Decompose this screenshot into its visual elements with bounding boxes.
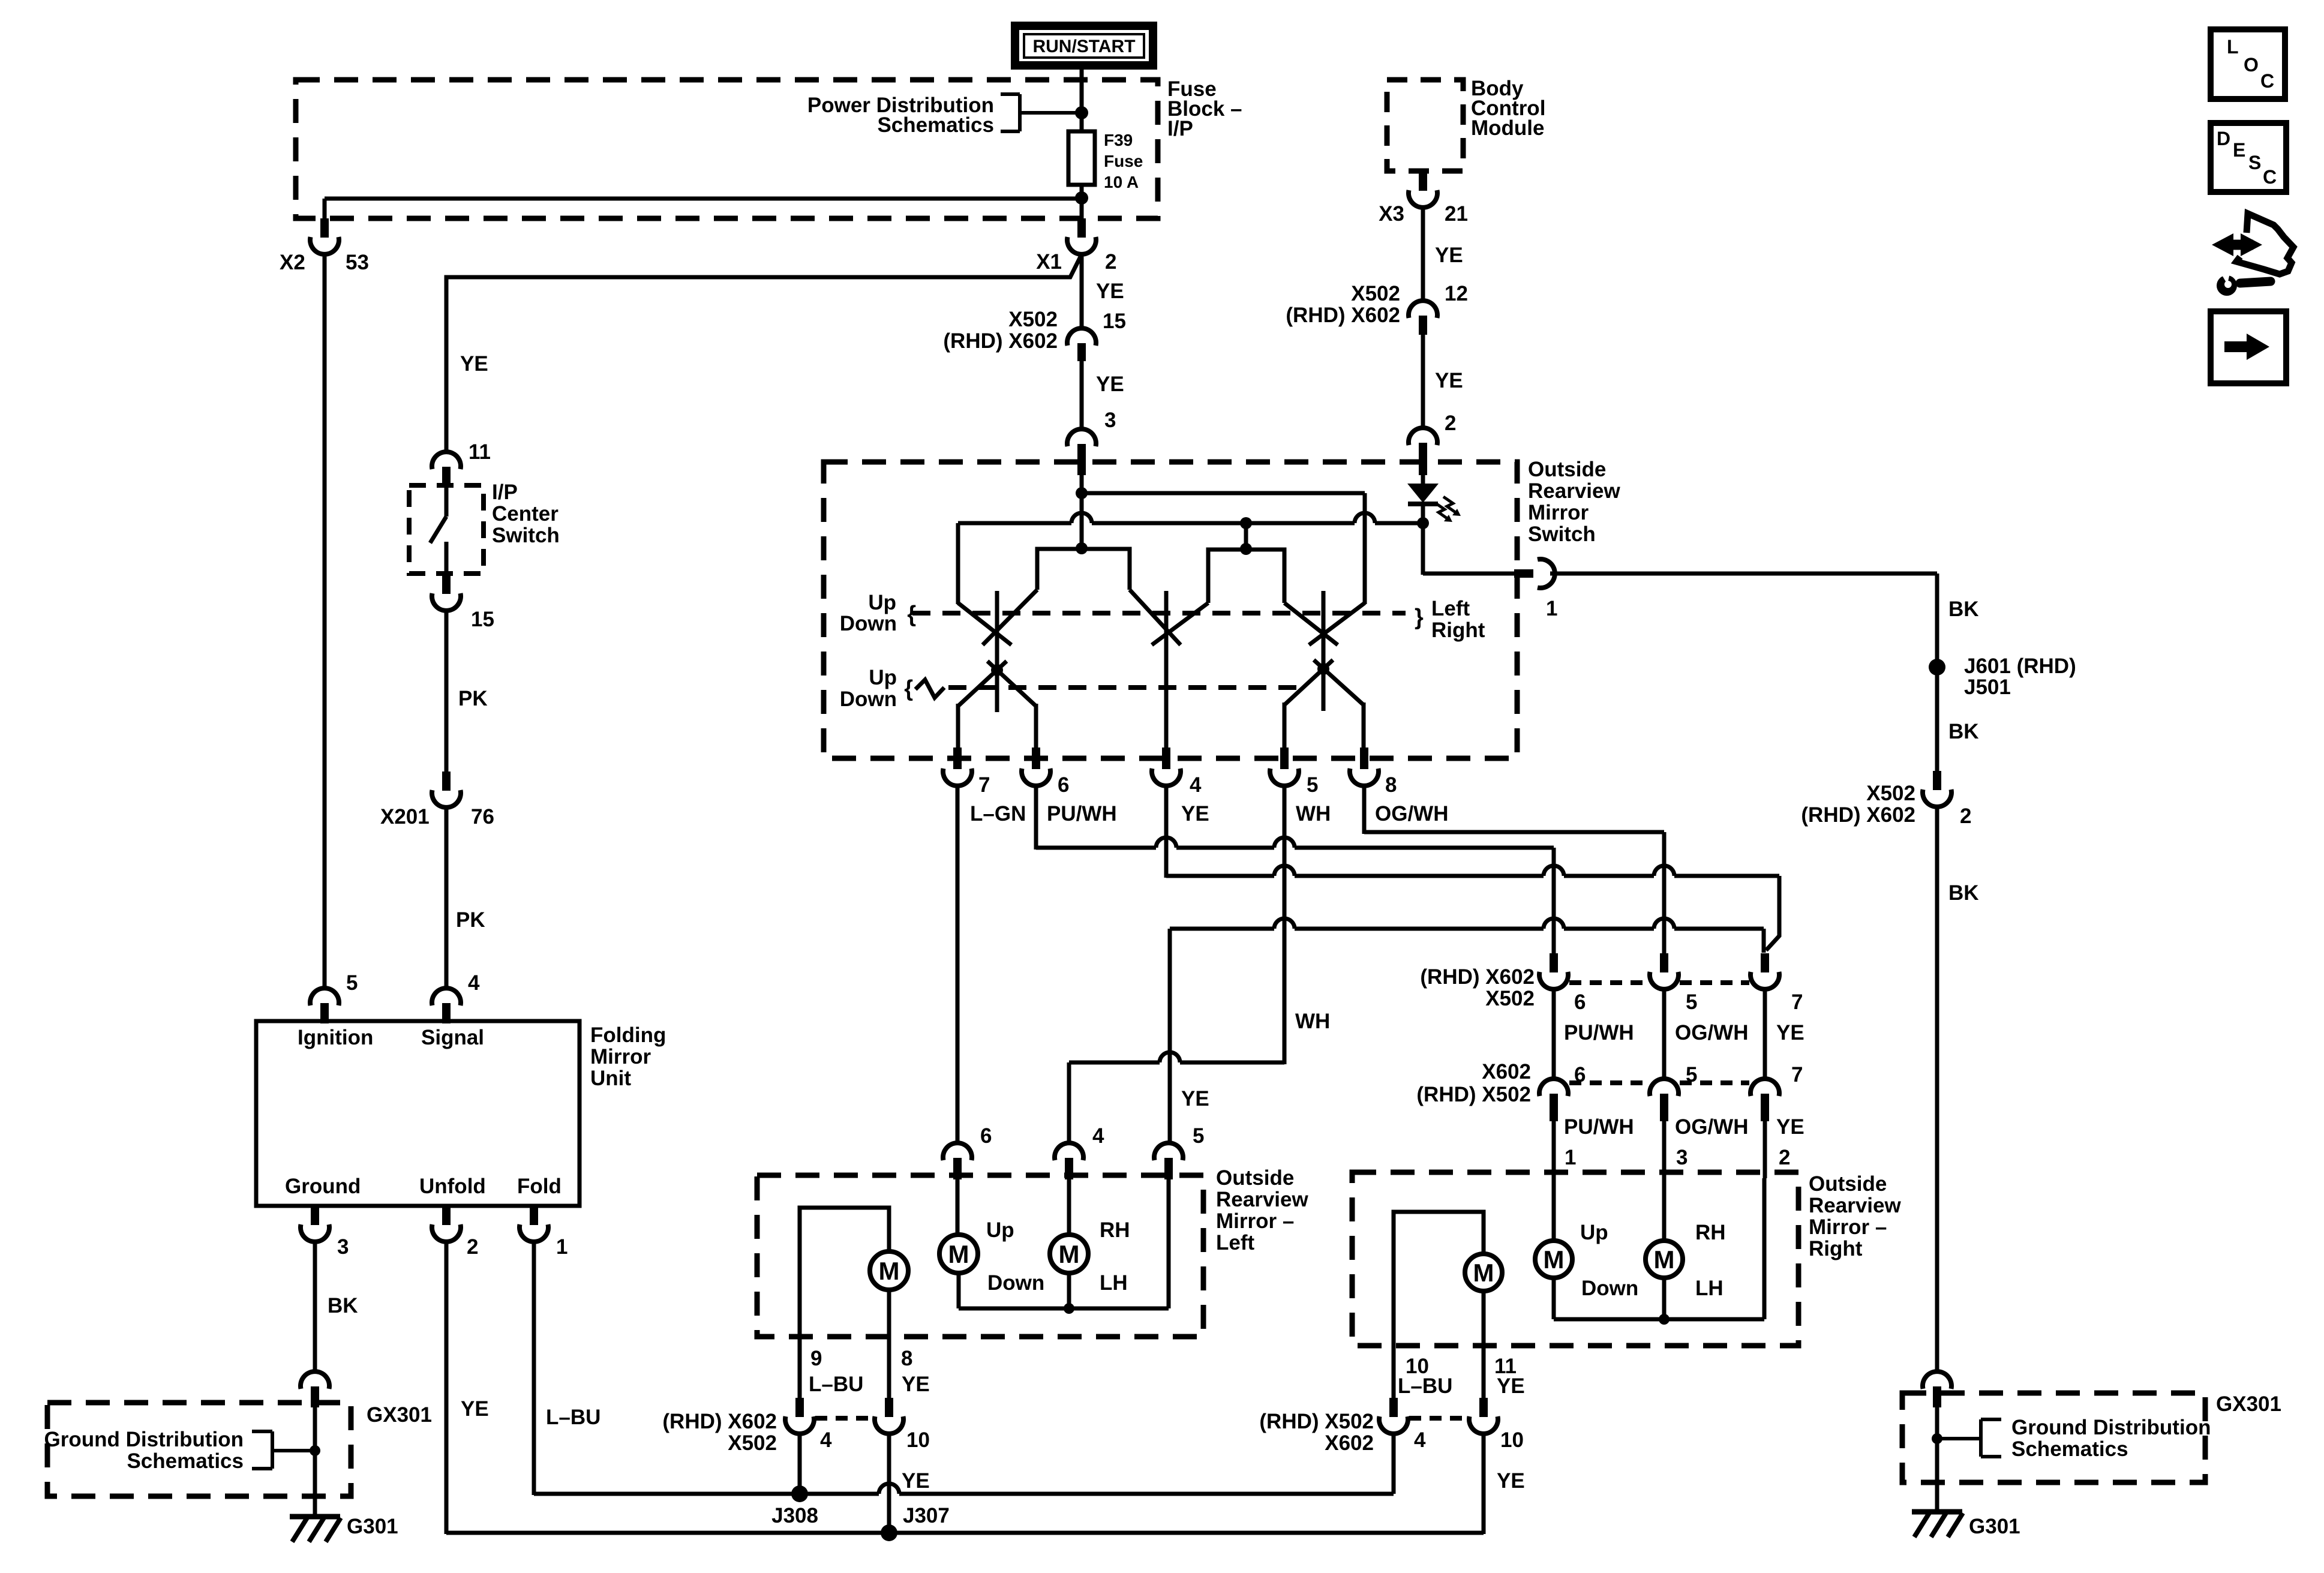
outside rearview mirror right label (1809, 1172, 1901, 1260)
label RH LH right (1695, 1221, 1726, 1300)
svg-text:X502: X502 (1008, 308, 1058, 331)
svg-text:L–GN: L–GN (970, 802, 1026, 825)
svg-text:3: 3 (337, 1235, 349, 1259)
svg-text:5: 5 (1193, 1124, 1204, 1148)
connector X2 pin 53 (310, 218, 339, 254)
svg-text:4: 4 (468, 971, 480, 995)
svg-text:6: 6 (1574, 990, 1586, 1014)
svg-text:YE: YE (1776, 1021, 1804, 1044)
label G301 left (347, 1515, 398, 1538)
motor up/down left (939, 1235, 978, 1273)
label PK (458, 687, 488, 710)
label 11 (469, 440, 491, 464)
svg-text:WH: WH (1295, 1010, 1330, 1033)
svg-text:Signal: Signal (421, 1026, 484, 1049)
wire YE pin4 down (1164, 785, 1169, 878)
label YE (1435, 369, 1463, 392)
svg-text:G301: G301 (1969, 1515, 2020, 1538)
svg-text:Outside: Outside (1528, 458, 1606, 481)
junction J307 (881, 1524, 897, 1541)
label 7 YE row2 (1776, 1063, 1804, 1139)
wire ground BK (313, 1242, 317, 1373)
svg-text:{: { (904, 676, 913, 701)
svg-text:GX301: GX301 (2216, 1392, 2281, 1416)
label 6 PU/WH (1047, 773, 1117, 825)
ip switch contacts (430, 487, 446, 575)
connector X201 pin 76 (432, 772, 461, 807)
wire LED line branch (1244, 523, 1248, 550)
svg-text:11: 11 (469, 440, 491, 464)
wire 15 to X201 (445, 611, 449, 773)
label X502 (RHD) X602 2 (1801, 782, 1971, 828)
motor fold right (1465, 1254, 1502, 1291)
svg-text:L: L (2227, 36, 2239, 58)
connector switch pin 5 (1270, 748, 1299, 786)
svg-text:M: M (1544, 1245, 1565, 1274)
connector FMU pin 5 (310, 988, 339, 1023)
svg-text:12: 12 (1445, 282, 1468, 305)
wire unfold YE down (446, 1242, 889, 1534)
dashed link right pair (1409, 1416, 1467, 1421)
connector left mirror pin 5 (1154, 1143, 1183, 1179)
junction dot gx301 left (310, 1445, 320, 1456)
connector switch pin 4 (1152, 748, 1181, 786)
label 5 (346, 971, 358, 995)
wire fuse to X1 (1080, 185, 1084, 220)
fuse F39 10A (1068, 131, 1095, 185)
svg-text:L–BU: L–BU (546, 1406, 600, 1429)
connector X602 pin 6 row2 (1539, 1079, 1568, 1121)
svg-text:4: 4 (820, 1428, 832, 1452)
brace left/right (1415, 605, 1424, 630)
brace up/down row2 (904, 676, 913, 701)
label 4 (468, 971, 480, 995)
label X502 (RHD) X602 15 (943, 308, 1126, 353)
svg-text:X502: X502 (728, 1431, 777, 1455)
svg-text:RH: RH (1100, 1218, 1130, 1242)
svg-text:Outside: Outside (1809, 1172, 1887, 1196)
ground distribution reference right (1937, 1416, 2211, 1461)
ip center switch label (492, 481, 560, 547)
svg-text:Fold: Fold (517, 1175, 562, 1198)
svg-text:Outside: Outside (1216, 1166, 1294, 1190)
label 1 (556, 1235, 568, 1259)
wire WH down to left mirror pin4 (1067, 1062, 1071, 1144)
label J307 (903, 1504, 950, 1527)
fuse F39 label (1104, 131, 1143, 191)
LED illumination (1407, 475, 1439, 524)
labels right mirror pins (1565, 1146, 1790, 1169)
connector X502 pin 6 row1 (1539, 953, 1568, 989)
svg-text:Rearview: Rearview (1216, 1188, 1308, 1211)
svg-text:7: 7 (1791, 990, 1803, 1014)
svg-text:}: } (1415, 605, 1424, 630)
wire X2 to ignition (323, 253, 327, 989)
label Up Down right (1580, 1221, 1638, 1300)
svg-text:M: M (879, 1257, 900, 1285)
wire OG/WH pin8 route (1364, 785, 1664, 834)
svg-text:YE: YE (1435, 244, 1463, 267)
wire PU/WH horizontal (1036, 837, 1554, 848)
gx301 left dashed box (47, 1403, 351, 1496)
svg-text:YE: YE (1497, 1374, 1525, 1398)
label G301 right (1969, 1515, 2020, 1538)
wire fold motor down pin11 (1482, 1291, 1486, 1399)
svg-text:Schematics: Schematics (127, 1449, 244, 1473)
switch feed wire (1080, 475, 1084, 550)
label 5 OG/WH row2 (1675, 1063, 1748, 1139)
wire X3 to X502-12 YE (1421, 206, 1425, 301)
svg-text:Right: Right (1809, 1237, 1863, 1260)
svg-text:Down: Down (840, 612, 897, 635)
wire fold motor loop (800, 1208, 889, 1399)
connector pin 2 into switch (1409, 428, 1437, 475)
label BK 3 (1948, 881, 1979, 905)
svg-text:X602: X602 (1482, 1060, 1531, 1083)
connector FMU pin 3 (301, 1205, 329, 1242)
label 4 10 (820, 1428, 930, 1452)
lower contact right legs (1284, 660, 1364, 705)
wire YE mirror-left horizontal H3 (1170, 918, 1764, 929)
svg-text:BK: BK (1948, 598, 1979, 621)
label YE (1096, 373, 1124, 396)
label 6 PU/WH row1 (1564, 990, 1634, 1044)
label 4 10 right (1414, 1428, 1524, 1452)
wire LED to pin1 (1423, 523, 1515, 575)
ground symbol G301 right (1912, 1512, 1963, 1537)
svg-text:X1: X1 (1036, 250, 1062, 274)
connector pin 3 into switch (1067, 429, 1096, 475)
svg-text:Folding: Folding (590, 1023, 666, 1047)
connector X502 (RHD) X602 pin 15 (1067, 328, 1096, 361)
wire through gx301 right (1935, 1407, 1939, 1512)
svg-text:X502: X502 (1351, 282, 1400, 305)
junction dot LED line (1240, 517, 1252, 529)
label 5 (1193, 1124, 1204, 1148)
label 2 (467, 1235, 478, 1259)
wire J308 line (534, 1484, 1394, 1494)
rocker contact right vertical (1322, 591, 1326, 711)
wire to pin8 (1362, 703, 1366, 750)
svg-text:9: 9 (810, 1347, 822, 1370)
svg-text:15: 15 (1103, 310, 1126, 333)
svg-text:Up: Up (1580, 1221, 1608, 1244)
label BK (328, 1294, 358, 1317)
svg-text:WH: WH (1296, 802, 1331, 825)
svg-text:7: 7 (978, 773, 990, 797)
wire to J308 (798, 1434, 802, 1494)
junction dot above fuse (1075, 106, 1088, 119)
wire YE jog to X502-7 (1766, 876, 1779, 950)
outside rearview mirror left dashed box (757, 1175, 1203, 1337)
svg-text:2: 2 (1960, 804, 1971, 828)
junction dot feed upper (1076, 487, 1088, 499)
outside rearview mirror switch dashed box (824, 462, 1517, 758)
svg-text:L–BU: L–BU (1398, 1374, 1452, 1398)
label Ignition Signal (298, 1026, 484, 1049)
label L-BU fold (546, 1406, 600, 1429)
label X2 53 (280, 251, 369, 274)
connector X502 pin 7 row1 (1750, 953, 1779, 989)
svg-text:RUN/START: RUN/START (1032, 37, 1135, 56)
svg-text:Mirror –: Mirror – (1809, 1215, 1887, 1239)
svg-text:M: M (1059, 1240, 1080, 1268)
label 15 (471, 608, 494, 631)
junction dot tent 2 (1240, 543, 1252, 555)
svg-text:1: 1 (1565, 1146, 1576, 1169)
svg-text:G301: G301 (347, 1515, 398, 1538)
connector X3 pin 21 (1409, 169, 1437, 208)
label J308 (771, 1504, 818, 1527)
wire PU/WH down to X502-6 (1552, 848, 1556, 954)
wire switch pin1 BK (1550, 574, 1937, 772)
label X201 76 (380, 805, 494, 828)
label 9 8 (810, 1347, 912, 1370)
svg-text:YE: YE (1181, 802, 1209, 825)
wire through gx301 left (313, 1407, 317, 1517)
label 6 (980, 1124, 992, 1148)
connector ground GX301 left (301, 1371, 329, 1407)
junction dot rail (1064, 1303, 1074, 1314)
dashed link row2 (1569, 1080, 1749, 1085)
svg-text:1: 1 (556, 1235, 568, 1259)
junction J308 (791, 1485, 808, 1502)
wire X1-2 down (1080, 253, 1084, 329)
svg-text:F39: F39 (1104, 131, 1133, 149)
motor rh/lh right (1646, 1241, 1683, 1278)
label L-BU YE (809, 1373, 930, 1396)
motor up/down right (1535, 1241, 1572, 1278)
svg-text:Down: Down (840, 688, 897, 711)
ip center switch dashed box (409, 485, 484, 574)
svg-text:Schematics: Schematics (877, 113, 994, 137)
svg-text:Ground: Ground (285, 1175, 361, 1198)
connector X602 pin 7 row2 (1750, 1079, 1779, 1121)
connector FMU pin 2 (432, 1205, 461, 1242)
svg-text:Left: Left (1216, 1231, 1255, 1254)
LED return wire y872 (958, 513, 1423, 523)
svg-text:X602: X602 (1325, 1431, 1374, 1455)
svg-text:{: { (907, 602, 916, 627)
svg-text:5: 5 (1686, 990, 1697, 1014)
label X502 (RHD) X602 12 (1286, 282, 1468, 327)
svg-text:O: O (2244, 54, 2259, 76)
wire H3 to X502-7 (1762, 929, 1766, 953)
right mirror common rail (1554, 1178, 1764, 1319)
svg-text:LH: LH (1695, 1277, 1724, 1300)
folding mirror unit box (256, 1021, 580, 1206)
svg-text:YE: YE (1776, 1115, 1804, 1139)
svg-text:X201: X201 (380, 805, 430, 828)
svg-text:YE: YE (902, 1469, 930, 1493)
svg-text:Schematics: Schematics (2011, 1437, 2128, 1461)
svg-text:(RHD) X602: (RHD) X602 (1420, 965, 1535, 989)
svg-text:Center: Center (492, 502, 559, 526)
svg-text:I/P: I/P (1167, 117, 1193, 140)
connector switch pin 1 (1514, 559, 1555, 588)
label BK 2 (1948, 720, 1979, 743)
icon vehicle wrench (2212, 214, 2293, 296)
connector switch pin 8 (1350, 748, 1379, 786)
wire J307 line (889, 1531, 1484, 1535)
svg-text:10: 10 (1500, 1428, 1524, 1452)
connector X1 pin 2 (1067, 218, 1096, 254)
dashed link row1 (1569, 980, 1749, 985)
connector X502 pin 10 right (1469, 1398, 1498, 1434)
junction dot LED bottom (1417, 517, 1429, 529)
label 3 (337, 1235, 349, 1259)
svg-text:Down: Down (987, 1271, 1044, 1295)
svg-text:S: S (2248, 152, 2261, 173)
svg-text:PU/WH: PU/WH (1564, 1115, 1634, 1139)
wire right pin10 down (1482, 1434, 1486, 1534)
wire OG/WH down to X502-5 (1662, 832, 1667, 954)
squiggle row2 (915, 680, 944, 698)
svg-text:2: 2 (1779, 1146, 1790, 1169)
body control module label (1471, 77, 1545, 140)
svg-text:X502: X502 (1866, 782, 1915, 805)
svg-text:Up: Up (869, 666, 897, 689)
label (RHD) X602 X502 row1 (1420, 965, 1535, 1010)
label RH LH (1100, 1218, 1130, 1295)
svg-text:2: 2 (1105, 250, 1116, 274)
wire fold L-BU down (532, 1242, 536, 1495)
connector left mirror pin 6 (943, 1143, 972, 1179)
svg-text:76: 76 (471, 805, 494, 828)
svg-text:Mirror –: Mirror – (1216, 1209, 1294, 1233)
wire to pin5 (1283, 703, 1287, 750)
wire pin3 to rhlh motor right (1662, 1178, 1667, 1242)
label Up Down row2 (840, 666, 897, 711)
label BK (1948, 598, 1979, 621)
junction dot below fuse (1075, 191, 1088, 205)
svg-text:YE: YE (902, 1373, 930, 1396)
svg-text:BK: BK (328, 1294, 358, 1317)
svg-text:C: C (2260, 70, 2274, 92)
lower contact left legs (958, 661, 1036, 706)
svg-text:53: 53 (346, 251, 369, 274)
svg-text:X3: X3 (1379, 202, 1404, 226)
junction dot gx301 right (1932, 1433, 1942, 1444)
svg-text:Ground Distribution: Ground Distribution (44, 1428, 244, 1451)
svg-text:YE: YE (1181, 1087, 1209, 1110)
svg-text:E: E (2233, 139, 2245, 161)
svg-text:YE: YE (461, 1397, 489, 1421)
label L-BU YE right (1398, 1374, 1525, 1398)
junction dot feed lower (1076, 542, 1088, 554)
junction dot rail right (1659, 1314, 1670, 1325)
svg-text:Rearview: Rearview (1528, 479, 1620, 503)
svg-text:PK: PK (458, 687, 488, 710)
icon arrow box (2211, 311, 2286, 383)
svg-text:8: 8 (901, 1347, 912, 1370)
label 7 L–GN (970, 773, 1026, 825)
svg-text:Rearview: Rearview (1809, 1194, 1901, 1217)
ignition voltage tag RUN/START (1015, 26, 1153, 65)
svg-text:5: 5 (346, 971, 358, 995)
wire WH pin5 down (1283, 785, 1287, 1064)
svg-text:Switch: Switch (1528, 523, 1596, 546)
connector ground GX301 right (1923, 1371, 1951, 1407)
wire H3 to left mirror pin5 (1168, 929, 1172, 1144)
svg-text:(RHD) X602: (RHD) X602 (662, 1410, 777, 1433)
wire feed to LED branch y822 (1082, 491, 1365, 496)
svg-text:3: 3 (1104, 409, 1116, 432)
label Ground Unfold Fold (285, 1175, 562, 1198)
svg-text:(RHD) X502: (RHD) X502 (1259, 1410, 1374, 1433)
motor rh/lh left (1050, 1235, 1088, 1273)
svg-text:Fuse: Fuse (1104, 152, 1143, 170)
svg-text:3: 3 (1676, 1146, 1688, 1169)
label 10 11 (1406, 1355, 1517, 1378)
label (RHD) X602 X502 (662, 1410, 777, 1455)
switch feed tent (1037, 549, 1130, 590)
svg-text:8: 8 (1385, 773, 1397, 797)
svg-text:Mirror: Mirror (1528, 501, 1589, 524)
label PK (456, 908, 485, 932)
rocker contact mid vertical (1164, 591, 1169, 749)
svg-text:J307: J307 (903, 1504, 950, 1527)
junction J601 (1929, 659, 1945, 676)
LED arrows (1435, 497, 1461, 522)
label WH (1295, 1010, 1330, 1033)
svg-text:OG/WH: OG/WH (1675, 1021, 1748, 1044)
connector X502 pin 4 right (1379, 1398, 1408, 1434)
svg-text:D: D (2217, 128, 2230, 149)
outside rearview mirror left label (1216, 1166, 1308, 1254)
lower contact right dot (1317, 663, 1329, 675)
label 8 OG/WH (1375, 773, 1448, 825)
svg-text:YE: YE (1435, 369, 1463, 392)
lower contact left dot (991, 664, 1003, 676)
svg-text:PU/WH: PU/WH (1047, 802, 1117, 825)
wire YE horizontal H2 (1166, 866, 1779, 876)
wire 12 to 2 YE (1421, 335, 1425, 428)
svg-text:Switch: Switch (492, 524, 560, 547)
connector X502 (RHD) X602 pin 12 (1409, 301, 1437, 335)
rocker contact left vertical (995, 591, 999, 712)
svg-text:6: 6 (980, 1124, 992, 1148)
svg-text:YE: YE (460, 352, 488, 376)
connector X502 pin 4 left (785, 1398, 814, 1434)
wire pin1 to updown motor right (1552, 1178, 1556, 1242)
wire left rocker upper-left contact (956, 523, 960, 604)
folding mirror unit label (590, 1023, 666, 1090)
bus wire to X2 (325, 199, 1080, 220)
svg-text:(RHD) X602: (RHD) X602 (943, 329, 1058, 353)
svg-text:(RHD) X602: (RHD) X602 (1801, 803, 1915, 827)
ground distribution reference left (44, 1428, 315, 1473)
fuse block label (1167, 77, 1242, 140)
label GX301 left (367, 1403, 432, 1427)
rocker contact mid X (1130, 590, 1208, 645)
svg-text:J601 (RHD): J601 (RHD) (1964, 655, 2076, 678)
ground symbol G301 left (290, 1517, 341, 1542)
svg-text:Ignition: Ignition (298, 1026, 373, 1049)
svg-text:Unit: Unit (590, 1067, 631, 1090)
svg-text:X2: X2 (280, 251, 305, 274)
label 7 YE row1 (1776, 990, 1804, 1044)
wires into right mirror (1554, 1121, 1765, 1178)
wire PU/WH pin6 route (1034, 785, 1038, 849)
svg-text:21: 21 (1445, 202, 1468, 226)
label YE unfold (461, 1397, 489, 1421)
svg-text:L–BU: L–BU (809, 1373, 863, 1396)
svg-text:GX301: GX301 (367, 1403, 432, 1427)
label J601 J501 (1964, 655, 2076, 699)
brace up/down row1 (907, 602, 916, 627)
label 3 (1104, 409, 1116, 432)
